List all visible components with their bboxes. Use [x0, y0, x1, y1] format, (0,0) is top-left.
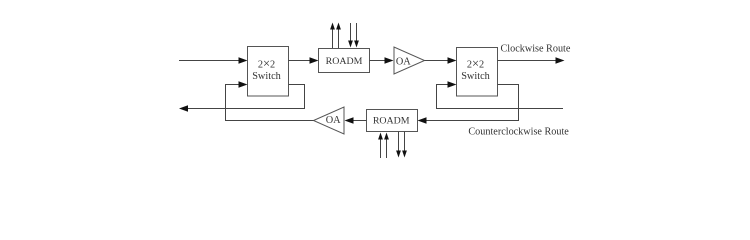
add arrow up 1 (ROADM2) [378, 133, 383, 159]
add arrow down 2 (ROADM1) [354, 23, 359, 48]
svg-text:Switch: Switch [461, 71, 490, 82]
svg-text:2×2: 2×2 [467, 57, 484, 71]
ROADM U1 (top ROADM) [319, 49, 370, 73]
ROADM U2 (bottom ROADM) [367, 110, 418, 132]
add arrow up 2 (ROADM2) [384, 133, 389, 159]
op-amp OA2 (bottom optical amplifier, points left) [314, 107, 345, 134]
svg-text:ROADM: ROADM [326, 56, 363, 67]
switch SW1 (left 2x2 switch) [248, 47, 289, 97]
wire SW2 loop to ROADM2 [418, 85, 519, 124]
svg-text:2×2: 2×2 [258, 57, 275, 71]
add arrow down 1 (ROADM1) [348, 23, 353, 48]
wire OA1 to SW2 [425, 57, 457, 64]
wire ROADM2 to OA2 [345, 117, 367, 124]
wire OA2 to SW1 lower input [226, 81, 314, 120]
wire SW1 loop to west drop output [179, 85, 305, 112]
wire ROADM1 to OA1 [370, 57, 394, 64]
drop arrow down 1 (ROADM2) [396, 132, 401, 158]
op-amp OA1 (top optical amplifier, points right) [394, 47, 425, 74]
wire SW1 to ROADM1 [289, 57, 319, 64]
drop arrow down 2 (ROADM2) [402, 132, 407, 158]
switch SW2 (right 2x2 switch) [457, 48, 498, 97]
wire clockwise route output [498, 57, 565, 64]
drop arrow up 1 (ROADM1) [330, 23, 335, 49]
svg-text:Switch: Switch [252, 71, 281, 82]
svg-text:OA: OA [396, 57, 411, 68]
wire counterclockwise route input [437, 81, 564, 108]
wire west add input [179, 57, 248, 64]
drop arrow up 2 (ROADM1) [336, 23, 341, 49]
svg-text:Counterclockwise Route: Counterclockwise Route [468, 127, 569, 138]
svg-text:OA: OA [326, 115, 341, 126]
svg-text:Clockwise Route: Clockwise Route [501, 44, 571, 55]
svg-text:ROADM: ROADM [373, 116, 410, 127]
